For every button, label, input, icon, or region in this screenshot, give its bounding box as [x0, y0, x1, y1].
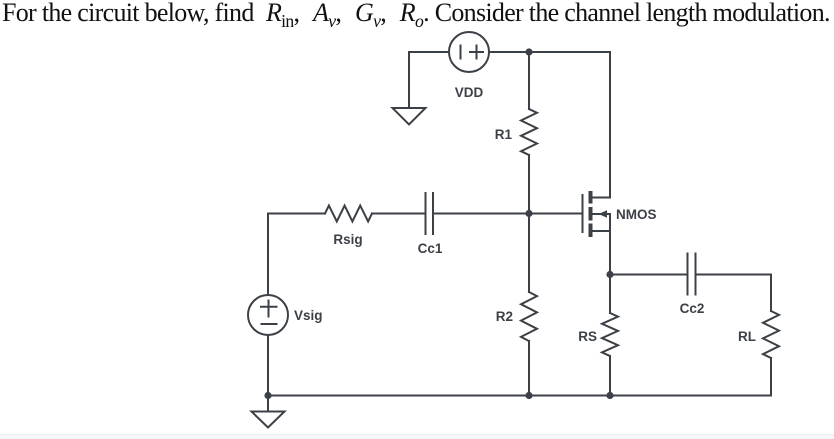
wire R1 to gate node [528, 155, 530, 214]
svg-text:Rsig: Rsig [333, 232, 362, 247]
wire source down to node [609, 231, 611, 275]
svg-text:R1: R1 [495, 127, 513, 142]
wire VDD right lead to top rail [489, 51, 610, 53]
svg-text:R2: R2 [496, 309, 513, 324]
wire RL to bottom rail [770, 358, 772, 396]
resistor R2 [521, 292, 537, 341]
wire to ground [267, 396, 269, 412]
svg-text:Cc2: Cc2 [680, 301, 705, 316]
svg-text:NMOS: NMOS [616, 207, 657, 222]
capacitor Cc2 [688, 254, 696, 295]
node RS bottom junction [606, 392, 613, 399]
svg-text:Cc1: Cc1 [418, 241, 443, 256]
wire gate node to R2 [528, 214, 530, 293]
wire source node to RS [609, 275, 611, 314]
wire RS to bottom rail [609, 356, 611, 396]
node bottom-left junction [264, 392, 271, 399]
svg-text:VDD: VDD [455, 85, 484, 100]
ground (top left) [393, 108, 426, 125]
resistor Rsig [325, 206, 372, 222]
node R2 bottom junction [525, 392, 532, 399]
wire VDD left lead [409, 52, 449, 108]
wire Cc2 to RL [696, 275, 772, 312]
wire Cc1 to gate node [433, 213, 529, 215]
svg-text:RS: RS [578, 329, 597, 344]
wire gate node to NMOS gate [529, 213, 583, 215]
wire Rsig to Cc1 [372, 213, 426, 215]
voltage source VDD [449, 32, 489, 72]
wire top rail down to drain [609, 52, 611, 198]
transistor Q1 NMOS [583, 191, 611, 237]
svg-text:RL: RL [738, 329, 756, 344]
capacitor Cc1 [426, 193, 434, 234]
wire bottom rail [268, 395, 771, 397]
node source junction [606, 271, 613, 278]
heading text [2, 0, 834, 32]
wire input row [268, 213, 325, 215]
node VDD rail junction [525, 48, 532, 55]
resistor RS [602, 313, 618, 356]
resistor R1 [521, 109, 537, 155]
voltage source Vsig [248, 295, 288, 335]
wire R2 to bottom rail [528, 341, 530, 396]
node gate junction [525, 210, 532, 217]
wire VDD node to R1 [528, 52, 530, 109]
wire input column [267, 214, 269, 296]
svg-text:Vsig: Vsig [294, 308, 323, 323]
wire Vsig to bottom rail [267, 335, 269, 396]
ground (bottom) [252, 412, 285, 428]
wire source node to Cc2 [610, 274, 688, 276]
resistor RL [763, 311, 779, 358]
